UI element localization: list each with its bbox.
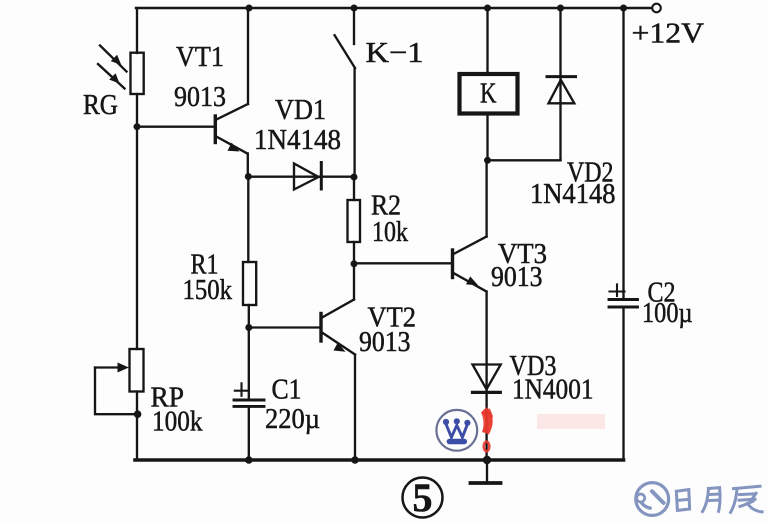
wire left rail (RG / RP branch) [136, 8, 138, 460]
red marker scribble [484, 411, 492, 452]
wire R1 bottom [248, 305, 250, 328]
diode VD1 [294, 163, 321, 190]
RP wiper arrow [95, 363, 137, 415]
svg-text:220µ: 220µ [265, 403, 320, 435]
svg-text:10k: 10k [372, 216, 408, 248]
capacitor C1 [234, 383, 264, 406]
light arrow 1 [100, 46, 127, 72]
svg-text:+12V: +12V [632, 18, 705, 50]
wire VT3 base [354, 262, 451, 264]
wire top rail [136, 7, 652, 10]
wire relay bottom [486, 115, 488, 161]
node R1 / C1 / VT2 base [245, 324, 252, 331]
wire VT1 base [137, 126, 215, 128]
capacitor C2 [609, 284, 638, 307]
diode VD2 [547, 77, 576, 104]
resistor R2 [348, 177, 361, 264]
wire C2 bottom [622, 307, 624, 460]
node R2 / VT2 collector / VT3 base [351, 260, 358, 267]
svg-text:VT1: VT1 [176, 41, 224, 73]
wire relay top [486, 8, 488, 72]
figure number 5 [403, 475, 443, 520]
svg-text:1N4148: 1N4148 [254, 124, 341, 156]
wire C1 bottom [248, 406, 250, 460]
potentiometer RP [130, 349, 144, 392]
brand text chen (star) [731, 486, 762, 512]
node VT1 emitter / VD1 / R1 [245, 173, 252, 180]
node bottom rail / C1 [245, 456, 253, 464]
node RG / VT1 base [134, 123, 141, 130]
node RP wiper [134, 410, 142, 418]
node VD1 / K-1 / R2 [351, 174, 358, 181]
svg-text:K: K [480, 78, 497, 110]
node bottom rail / VD3 ground [483, 456, 491, 464]
wire C2 top [622, 8, 624, 298]
svg-text:150k: 150k [183, 274, 233, 306]
svg-text:100µ: 100µ [642, 297, 693, 329]
brand logo circle (sun-moon) [636, 483, 669, 516]
svg-text:100k: 100k [152, 406, 203, 438]
svg-text:5: 5 [413, 475, 433, 520]
transistor VT2 [321, 300, 355, 355]
svg-text:1N4148: 1N4148 [530, 178, 616, 210]
wire VT3 emitter to ground rail [485, 292, 487, 461]
wire VT2 collector up [353, 264, 355, 300]
svg-text:VD1: VD1 [275, 94, 326, 126]
wire R1 top [247, 177, 249, 262]
faint pink smear [537, 414, 605, 429]
wire VT2 emitter to ground rail [354, 355, 356, 461]
wire VT3 collector up [485, 160, 487, 236]
wire VT2 base [249, 326, 320, 328]
node top rail / relay K [484, 5, 491, 12]
diode VD3 [473, 365, 501, 393]
transistor VT3 [453, 237, 487, 292]
node bottom rail / VT2 emitter [351, 456, 359, 464]
transistor VT1 [215, 104, 248, 154]
node top rail / VT1 collector [246, 5, 253, 12]
svg-text:9013: 9013 [174, 81, 226, 113]
watermark W logo [436, 410, 477, 451]
wire VT1 emitter down [247, 154, 249, 178]
wire C1 top [248, 328, 250, 399]
node relay / VD2 / VT3 collector [484, 157, 491, 164]
node top rail / VD2 [557, 5, 564, 12]
svg-text:C1: C1 [272, 374, 302, 406]
switch K-1 [335, 8, 355, 177]
brand text yue (moon) [703, 488, 721, 512]
node top rail / switch K-1 [351, 5, 358, 12]
node top rail / C2 [620, 5, 627, 12]
brand text ri (sun) [676, 490, 689, 511]
svg-text:RG: RG [83, 89, 118, 121]
resistor R1 [243, 262, 256, 305]
wire relay to VD2 [488, 159, 561, 161]
svg-text:9013: 9013 [491, 261, 543, 293]
wire bottom rail (ground rail) [135, 458, 624, 462]
wire VT1 collector to top rail [247, 8, 249, 104]
relay K [460, 74, 518, 114]
light arrow 2 [98, 64, 125, 89]
wire VD2 branch [559, 8, 561, 160]
svg-text:9013: 9013 [359, 326, 411, 358]
ground [471, 460, 501, 483]
+12V terminal [652, 4, 661, 13]
svg-text:1N4001: 1N4001 [512, 374, 594, 406]
wire VD1 node to switch node [248, 176, 354, 178]
photoresistor RG [131, 53, 144, 94]
svg-text:K−1: K−1 [366, 37, 424, 69]
